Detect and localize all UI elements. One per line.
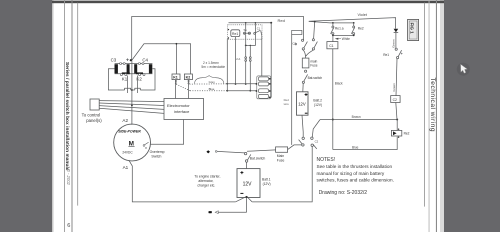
small circle aux — [295, 43, 297, 45]
wire K2 aux drop — [137, 76, 139, 94]
wire K coil feed diagonal — [132, 44, 191, 74]
svg-text:12V: 12V — [243, 181, 253, 187]
svg-text:Re2: Re2 — [358, 27, 364, 31]
svg-text:5A: 5A — [244, 28, 247, 32]
relay box K2 — [184, 74, 192, 80]
node white right — [353, 35, 355, 37]
svg-text:Overtemp: Overtemp — [150, 150, 165, 154]
node fuse riser left — [245, 22, 247, 24]
svg-text:To control: To control — [82, 112, 101, 117]
svg-text:(12V): (12V) — [263, 182, 271, 186]
terminal 4 — [259, 94, 269, 98]
wire Re1 coil drop — [235, 37, 237, 84]
svg-text:2 A: 2 A — [236, 57, 240, 61]
node white left — [332, 35, 334, 37]
svg-text:12V: 12V — [298, 102, 306, 107]
node black brown cross — [332, 119, 334, 121]
contactor bar right — [149, 64, 152, 73]
control panel connector box — [90, 99, 99, 110]
switch in dashed box — [254, 26, 262, 35]
wire splice riser — [226, 39, 228, 91]
relay coil box Re2 — [391, 129, 401, 138]
wire Red top rail — [132, 17, 304, 61]
svg-text:C1: C1 — [329, 44, 333, 48]
svg-text:alternator,: alternator, — [198, 179, 213, 183]
wire bracket left — [108, 69, 124, 90]
node term1 right — [269, 78, 271, 80]
arrow to minus — [215, 211, 246, 214]
fan wire 1 — [99, 101, 164, 102]
wire violet tap down — [314, 22, 315, 39]
wire K1 aux drop — [127, 76, 129, 94]
svg-text:A2: A2 — [122, 118, 128, 123]
wire K1 box top riser — [175, 44, 177, 74]
svg-text:Batt.2: Batt.2 — [313, 98, 322, 102]
svg-text:switches, fuses and cable dime: switches, fuses and cable dimension. — [317, 177, 394, 182]
svg-text:Fuse: Fuse — [310, 64, 317, 68]
hop bump left — [125, 88, 131, 90]
notes text block — [317, 157, 394, 196]
contact circle below fuse2 — [305, 70, 307, 72]
main fuse 2 box vertical — [302, 58, 309, 68]
svg-text:Switch: Switch — [151, 154, 161, 158]
page top dark band — [52, 1, 444, 4]
svg-text:SIDE-POWER: SIDE-POWER — [118, 130, 141, 134]
FIG 1 box — [408, 19, 419, 40]
fuse F2 circles — [249, 57, 251, 91]
svg-text:A1: A1 — [123, 165, 129, 170]
battery2 plus mark — [305, 93, 308, 96]
C2 switch left pole — [299, 137, 305, 146]
right sidebar rule 2 — [436, 0, 437, 232]
battery1 switch contact — [244, 152, 250, 162]
svg-text:Technical wiring: Technical wiring — [429, 78, 436, 133]
svg-text:C2: C2 — [315, 140, 319, 144]
svg-text:Drawing no: S-2032/2: Drawing no: S-2032/2 — [319, 190, 368, 196]
svg-text:1.0 - 2002: 1.0 - 2002 — [66, 166, 71, 186]
wire fuse bus — [229, 22, 272, 24]
contactor C4 bottom thick pad — [136, 72, 143, 74]
pin dot Re1 upper — [228, 29, 229, 30]
coil box C2 — [391, 96, 400, 103]
battery1 plus mark — [240, 171, 243, 174]
wire black drop — [332, 49, 334, 150]
pin dot Re1 lower — [228, 37, 229, 38]
node fuse bus / terminal strip feed — [270, 22, 272, 24]
wire switch to main fuse — [247, 150, 276, 151]
wire ground bus right end riser — [252, 147, 312, 202]
terminal 2 — [259, 82, 269, 86]
svg-text:NOTES!: NOTES! — [317, 157, 336, 163]
svg-text:panel(s): panel(s) — [86, 118, 102, 123]
wire A upper feed riser — [291, 34, 293, 144]
wire grey solid — [227, 83, 256, 85]
node blue splice — [226, 90, 228, 92]
node grey splice — [226, 83, 228, 85]
wire fuse1 drop — [245, 35, 247, 57]
node plus — [130, 59, 132, 61]
contactor bar mid-left — [127, 64, 130, 73]
wire fuse to c2 cluster — [288, 145, 302, 150]
battery2 minus mark — [305, 112, 308, 114]
fuse 5A in box — [244, 28, 251, 34]
node term4 right — [269, 97, 271, 99]
left gray desktop area — [0, 0, 52, 232]
diode on violet drop — [394, 29, 399, 33]
node term2 right — [269, 83, 271, 85]
svg-text:Bat.switch: Bat.switch — [250, 156, 266, 160]
wire re1 contact to C2 coil — [396, 59, 397, 96]
fuse F1 circles — [245, 57, 247, 84]
svg-text:Re1.a: Re1.a — [335, 27, 344, 31]
terminal 1 — [259, 77, 269, 81]
svg-text:Blue: Blue — [209, 87, 215, 91]
left sidebar rule 2 — [72, 0, 73, 232]
svg-text:Electromotor: Electromotor — [167, 103, 190, 108]
wire re2 coil top — [396, 120, 398, 131]
svg-text:charger etc.: charger etc. — [197, 184, 215, 188]
svg-text:See table in the thrusters ins: See table in the thrusters installation — [317, 164, 393, 169]
svg-text:C4: C4 — [142, 58, 148, 63]
contactor C4 top contacts — [138, 63, 144, 65]
wire to C1 box — [332, 35, 334, 41]
wire motor A1 drop — [129, 160, 236, 202]
fan wire 4 — [99, 108, 164, 113]
C2 switch right pole — [311, 137, 317, 149]
wire diode down — [395, 33, 397, 48]
battery1 minus mark — [240, 192, 243, 194]
svg-text:Grey: Grey — [209, 80, 216, 84]
node term2 left — [256, 83, 258, 85]
contactor bar left — [115, 64, 118, 73]
wire blue solid — [227, 90, 256, 92]
wire center column A2 — [131, 60, 133, 125]
node fuse chain merge — [245, 45, 247, 47]
plus terminal symbol — [206, 150, 210, 153]
wire fuse chain right riser — [246, 23, 256, 46]
svg-text:C2: C2 — [393, 98, 397, 102]
overtemp switch contact — [143, 142, 149, 148]
svg-text:K1: K1 — [173, 76, 178, 80]
relay box K1 — [172, 74, 180, 80]
battery1 box — [237, 169, 260, 198]
node Re1 drop on grey wire — [235, 83, 237, 85]
svg-text:Batt.1: Batt.1 — [262, 178, 271, 182]
svg-text:Black: Black — [335, 82, 343, 86]
Re1 power contact — [395, 48, 402, 59]
contactor C4 bottom contacts — [139, 74, 145, 76]
node fuse riser right — [255, 22, 257, 24]
schematic frame left border — [76, 3, 79, 206]
right sidebar rule 1 — [428, 0, 431, 232]
battery2 switch contact — [302, 74, 307, 83]
node fuse2 tap — [250, 45, 251, 46]
wire brown — [320, 119, 397, 121]
wire K1 box to interface — [175, 80, 177, 99]
node blue junction — [249, 90, 251, 92]
wire blue dashed diagonal — [176, 84, 190, 90]
wire overtemp to interface — [150, 120, 183, 145]
svg-text:Re1: Re1 — [383, 53, 389, 57]
wire blue bottom — [333, 137, 397, 150]
dashed relay box Re1 enclosure — [228, 25, 262, 39]
node K coil feed — [176, 43, 178, 45]
wire contact bus — [309, 21, 354, 23]
underline M — [128, 146, 134, 148]
hop bump right — [135, 88, 141, 90]
fan wire 2 — [99, 103, 164, 106]
node fan center cross — [131, 105, 133, 107]
wire switch2 to battery2 — [302, 83, 304, 91]
svg-text:5m = extendable: 5m = extendable — [201, 65, 225, 69]
svg-text:manual for sizing of main batt: manual for sizing of main battery — [317, 171, 385, 176]
main fuse 1 box — [276, 147, 288, 152]
relay coil box Re1 — [231, 30, 240, 37]
schematic frame right border — [423, 3, 426, 207]
coil box C1 — [327, 42, 338, 49]
svg-text:Re2: Re2 — [404, 132, 410, 136]
wire switch to terminal1 — [261, 36, 263, 76]
fan wire 3 — [99, 106, 164, 110]
aux contact Re1.a — [331, 24, 334, 36]
cable brace — [195, 76, 224, 84]
wire fuse2 drop — [249, 45, 251, 56]
wire right pole to brown corner — [312, 120, 320, 137]
wire bracket bottom mid — [131, 89, 135, 91]
right gray desktop area — [444, 0, 500, 232]
left sidebar rule 1 — [63, 0, 66, 232]
node violet tap — [314, 21, 316, 23]
svg-text:FIG 1: FIG 1 — [410, 23, 415, 35]
left page edge shade — [52, 0, 54, 232]
svg-text:Series / parallel switch box i: Series / parallel switch box installatio… — [65, 62, 70, 170]
wire switch1 to battery1 — [246, 162, 248, 168]
svg-text:C1: C1 — [257, 26, 261, 30]
svg-text:Green: Green — [392, 83, 396, 92]
battery1 bottom junction fan — [235, 196, 252, 212]
node bracket center — [131, 89, 133, 91]
svg-text:Green: Green — [392, 39, 396, 48]
right page edge gradient — [440, 0, 444, 232]
svg-text:K1: K1 — [122, 77, 128, 82]
svg-text:Fuse: Fuse — [277, 158, 285, 162]
electromotor interface box — [164, 99, 204, 120]
switch cluster pole1 — [302, 39, 308, 50]
fuse under K1 box — [175, 80, 177, 84]
contactor C3 bottom contacts — [120, 74, 126, 76]
contactor C3 bottom thick pad — [122, 72, 130, 74]
svg-text:Violet: Violet — [358, 13, 368, 17]
wire violet rail — [309, 18, 396, 29]
arrow to plus — [215, 151, 244, 153]
mouse cursor — [457, 63, 470, 76]
svg-text:To engine starter,: To engine starter, — [194, 174, 220, 178]
terminal 3 — [259, 89, 269, 93]
node grey junction — [245, 83, 247, 85]
contactor C3 top contacts — [120, 63, 126, 65]
coil box C1a — [292, 30, 302, 34]
svg-text:Bat.switch: Bat.switch — [308, 76, 323, 80]
svg-text:interface: interface — [174, 109, 190, 114]
node brown re2 — [396, 119, 398, 121]
node term3 left — [256, 90, 258, 92]
node term3 right — [269, 90, 271, 92]
svg-text:Red: Red — [278, 18, 285, 23]
motor circle M — [114, 124, 151, 161]
wire terminal strip right riser — [270, 23, 272, 98]
label plus sign — [126, 58, 129, 61]
svg-text:6: 6 — [67, 223, 70, 229]
wire C2 coil to brown — [396, 103, 397, 120]
svg-text:Re1: Re1 — [232, 32, 238, 36]
minus terminal symbol — [209, 211, 212, 213]
contactor block C3 C4 outline — [115, 64, 153, 74]
aux contact Re2 — [351, 24, 354, 36]
wire bracket right — [140, 69, 155, 90]
fuse under K2 box — [188, 80, 190, 84]
wire poles merge to fuse2 — [303, 50, 313, 58]
wire battery2 minus drop — [302, 115, 303, 137]
svg-text:Blue: Blue — [352, 145, 359, 149]
wire grey dashed — [190, 83, 228, 85]
svg-text:(12V): (12V) — [314, 103, 322, 107]
svg-text:24VDC: 24VDC — [122, 151, 133, 155]
svg-text:wire: wire — [284, 102, 290, 106]
contactor bar mid-right — [134, 64, 137, 73]
svg-text:White: White — [342, 37, 350, 41]
switch cluster pole2 — [312, 39, 317, 50]
arrow white label — [335, 38, 341, 40]
wire fuse chain left riser — [245, 23, 247, 32]
terminal strip outline — [257, 76, 271, 99]
svg-text:Brown: Brown — [352, 115, 361, 119]
contact bus Re1a — [332, 22, 355, 24]
svg-text:C3: C3 — [111, 58, 117, 63]
wire K2 box to interface — [188, 80, 190, 99]
wire blue dashed — [190, 90, 227, 92]
battery2 box — [297, 92, 309, 115]
wire white bus — [333, 34, 354, 36]
svg-text:K2: K2 — [186, 76, 191, 80]
